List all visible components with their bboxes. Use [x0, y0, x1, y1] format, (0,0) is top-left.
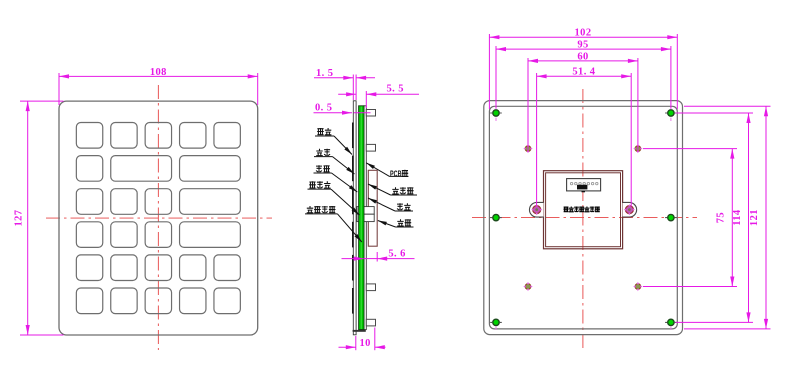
connector back view	[567, 179, 601, 193]
hole circles with center marks	[523, 144, 642, 291]
right ear	[623, 202, 637, 217]
dim 60	[528, 58, 638, 152]
panel outline front	[59, 101, 258, 335]
svg-text:10: 10	[360, 338, 371, 349]
text component area	[563, 207, 600, 213]
keys grid	[76, 123, 240, 314]
row4 keys	[76, 222, 102, 248]
label anjian (key)	[315, 128, 352, 155]
component box inner	[546, 173, 621, 247]
svg-text:114: 114	[732, 209, 743, 226]
dim 121 right	[684, 106, 771, 329]
dim 5.5	[338, 91, 419, 108]
dim 10	[339, 328, 386, 351]
dim 114 right	[676, 113, 754, 322]
row5 keys	[76, 255, 102, 281]
svg-text:1. 5: 1. 5	[316, 68, 333, 79]
svg-text:75: 75	[716, 212, 727, 223]
left ear	[529, 202, 543, 217]
svg-text:5. 5: 5. 5	[387, 84, 404, 95]
component box outer	[544, 171, 623, 249]
dim 51.4	[537, 73, 632, 207]
screw boss tab 1	[366, 110, 375, 117]
green screw holes	[490, 110, 677, 330]
bottom plate layer	[364, 106, 366, 330]
svg-text:108: 108	[150, 67, 167, 78]
svg-text:121: 121	[749, 209, 760, 226]
centerline horizontal left view	[46, 217, 272, 219]
row3 keys	[76, 189, 102, 215]
row1 keys	[76, 123, 102, 149]
centerline vertical right view	[582, 89, 584, 348]
svg-text:127: 127	[13, 210, 24, 227]
bottom cap	[353, 330, 366, 332]
inner rect back	[489, 106, 677, 329]
dimension 127	[20, 101, 64, 335]
key sections (6 rows)	[352, 123, 354, 314]
svg-text:0. 5: 0. 5	[315, 103, 332, 114]
svg-text:102: 102	[575, 28, 592, 39]
dimension 108	[59, 73, 258, 105]
screw boss tab 4	[366, 319, 375, 326]
component box section	[368, 170, 377, 246]
label diban (bottom plate)	[368, 198, 413, 211]
svg-text:51. 4: 51. 4	[572, 67, 595, 78]
svg-text:5. 6: 5. 6	[388, 249, 405, 260]
screw boss tab 3	[366, 284, 375, 291]
label chenban (liner)	[314, 165, 358, 192]
membrane/PCB green strip	[359, 106, 364, 330]
row2 keys	[76, 156, 102, 182]
label bomokaiguan (membrane switch)	[305, 206, 362, 242]
svg-text:95: 95	[577, 40, 588, 51]
centerline vertical left view	[157, 85, 159, 350]
label guijiaopian (silicone)	[308, 181, 360, 215]
centerline horizontal right view	[472, 217, 697, 219]
dim 1.5	[314, 75, 375, 101]
connector section upper	[357, 207, 374, 215]
dim 102	[489, 34, 677, 109]
svg-text:PCB: PCB	[390, 169, 402, 179]
dim 95	[496, 46, 671, 109]
label mianban (panel)	[314, 149, 355, 174]
front panel plate section	[353, 101, 356, 335]
connector section lower	[357, 214, 374, 221]
dim 5.6	[342, 252, 415, 262]
screw boss tab 2	[366, 144, 375, 151]
dim 75 right	[643, 149, 737, 287]
label jueyuanmo (insulating film)	[368, 184, 417, 195]
svg-text:60: 60	[577, 51, 588, 62]
outer rect back	[484, 101, 683, 335]
row6 keys	[76, 288, 102, 314]
dim 0.5	[314, 112, 371, 114]
label PCB ban	[366, 163, 408, 179]
label dihe (bottom case)	[378, 219, 414, 227]
